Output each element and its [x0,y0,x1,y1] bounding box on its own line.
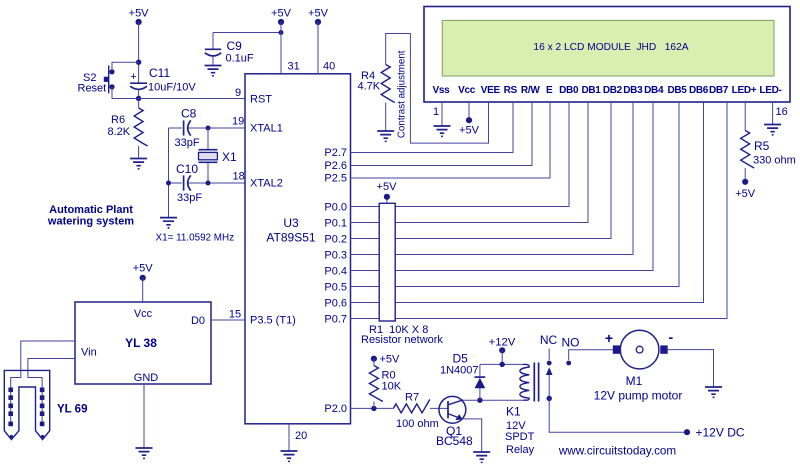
resistor R7 100 ohm [393,392,438,431]
+12V supply (relay) [489,337,516,354]
+5V supply (R0) [371,354,400,366]
wire LED- to ground [772,102,774,124]
+5V supply (pin40) [308,8,329,26]
svg-text:R7: R7 [405,392,419,404]
svg-text:P0.1: P0.1 [324,217,347,229]
wire XTAL1 net [169,127,246,129]
ground (C9) [205,66,222,76]
svg-text:Relay: Relay [506,444,535,456]
svg-text:Reset: Reset [78,83,107,95]
node +12V DC [684,429,690,435]
resistor network R1 10K x 8 [379,197,395,321]
svg-text:P3.5 (T1): P3.5 (T1) [250,315,296,327]
svg-text:DB5: DB5 [667,85,687,96]
wire NO contact to motor [569,350,613,360]
wire R/W to P2.6 [351,102,533,166]
svg-text:D5: D5 [453,352,469,366]
wire collector to coil [463,399,523,401]
svg-text:NC: NC [540,333,558,347]
ground (motor) [705,387,722,397]
+5V supply (LCD Vcc) [459,117,480,136]
svg-text:XTAL2: XTAL2 [250,178,283,190]
wire S2 top branch [112,62,139,69]
svg-text:Automatic Plant: Automatic Plant [49,204,133,216]
ground (Vss) [434,126,451,136]
ground (Q1 emitter) [473,452,490,462]
wire LCD Vcc to +5V [468,102,470,120]
svg-text:Vin: Vin [81,347,97,359]
svg-text:10K: 10K [382,381,402,393]
svg-text:+: + [605,330,613,346]
svg-text:Vcc: Vcc [134,308,153,320]
wire RS to P2.7 [351,102,514,153]
wire YL38 D0 to P3.5 [211,319,245,321]
svg-text:P0.7: P0.7 [324,313,347,325]
svg-text:LED+: LED+ [732,85,757,96]
svg-text:+5V: +5V [129,8,150,20]
svg-text:BC548: BC548 [436,434,473,448]
svg-text:D0: D0 [191,315,205,327]
wire +5V rail down to C11 [138,22,140,83]
svg-text:+5V: +5V [133,263,154,275]
+5V supply (pin31) [271,8,292,26]
svg-text:1N4007: 1N4007 [440,365,479,377]
svg-text:AT89S51: AT89S51 [266,231,315,245]
svg-text:12V pump motor: 12V pump motor [594,389,683,403]
svg-text:P0.3: P0.3 [324,249,347,261]
wire +12V to coil top [480,350,523,364]
sensor probe YL 69 [4,370,49,439]
svg-text:RST: RST [250,94,272,106]
svg-text:R6: R6 [111,114,125,126]
svg-text:DB1: DB1 [581,85,601,96]
svg-text:www.circuitstoday.com: www.circuitstoday.com [558,445,676,458]
svg-text:+5V: +5V [735,188,756,200]
svg-text:+12V DC: +12V DC [696,426,745,440]
ground (R4) [377,131,394,141]
svg-text:LED-: LED- [759,85,781,96]
svg-text:YL 38: YL 38 [125,336,157,350]
resistor R5 330 ohm [741,131,796,182]
wire motor negative to ground [668,350,714,387]
svg-text:+5V: +5V [271,8,292,20]
+5V supply (YL38 Vcc) [133,263,154,281]
svg-text:X1: X1 [222,150,237,164]
svg-text:Resistor network: Resistor network [361,334,443,346]
wire DB7 to P0.7 [351,102,728,319]
svg-text:0.1uF: 0.1uF [226,53,254,65]
svg-text:-: - [669,329,674,345]
node junction RST [136,96,141,101]
svg-text:M1: M1 [626,374,643,388]
ground (crystal caps) [160,218,177,228]
wire NC contact [548,349,550,360]
wire DB0 to P0.0 [351,102,570,207]
sensor module YL 38 [75,302,211,384]
node junction S2 top [136,60,141,65]
svg-text:DB6: DB6 [689,85,709,96]
svg-text:+5V: +5V [459,125,480,137]
svg-text:C8: C8 [181,107,197,121]
wire S2 bottom branch [112,87,139,99]
node junction diode/coil [477,398,482,403]
op IC U3 AT89S51 [245,74,351,424]
svg-text:20: 20 [295,430,307,442]
wire probe lead A [11,341,75,424]
svg-text:GND: GND [134,372,159,384]
wire emitter to ground [462,419,482,452]
svg-text:4.7K: 4.7K [358,81,381,93]
node junction armature/common [547,396,552,401]
diode D5 1N4007 [440,352,485,401]
node junction XTAL2/crystal [206,181,211,186]
wire DB1 to P0.1 [351,102,589,223]
svg-text:16 x 2 LCD MODULE JHD 162A: 16 x 2 LCD MODULE JHD 162A [533,42,688,53]
capacitor C10 33pF [176,162,202,204]
svg-text:C10: C10 [176,162,198,176]
wire YL38 GND [143,384,145,448]
title Automatic Plant watering system [47,204,134,228]
node junction +12V/top wire [500,362,505,367]
svg-text:18: 18 [233,171,245,183]
svg-text:C9: C9 [227,39,243,53]
svg-text:P2.5: P2.5 [324,173,347,185]
svg-text:K1: K1 [506,405,521,419]
node junction R0/P2.0 [371,406,376,411]
svg-text:+12V: +12V [489,337,516,349]
svg-text:E: E [546,85,553,96]
svg-text:31: 31 [288,61,300,73]
svg-text:U3: U3 [283,216,299,230]
svg-text:DB0: DB0 [559,85,579,96]
ground (LED-) [764,125,781,135]
svg-text:X1= 11.0592 MHz: X1= 11.0592 MHz [156,233,235,244]
svg-text:P2.0: P2.0 [324,403,347,415]
svg-text:P0.6: P0.6 [324,297,347,309]
svg-text:100 ohm: 100 ohm [396,418,439,430]
svg-text:P2.7: P2.7 [324,147,347,159]
capacitor C8 33pF [175,107,200,150]
wire C9 to +5V pin31 rail [213,32,281,34]
relay armature arrow [546,367,553,398]
svg-text:NO: NO [562,336,580,350]
svg-text:+5V: +5V [308,8,329,20]
motor M1 12V pump [605,329,674,369]
svg-text:33pF: 33pF [177,192,202,204]
svg-text:P0.2: P0.2 [324,233,347,245]
transistor Q1 BC548 [436,396,473,447]
svg-text:+5V: +5V [380,354,401,366]
svg-text:40: 40 [323,61,335,73]
svg-text:P0.0: P0.0 [324,201,347,213]
+5V supply (R5) [735,179,756,200]
switch S2 [78,66,115,95]
svg-text:watering system: watering system [47,216,134,228]
svg-text:DB3: DB3 [623,85,643,96]
svg-text:+: + [130,71,136,83]
svg-text:8.2K: 8.2K [108,126,131,138]
svg-text:DB4: DB4 [644,85,664,96]
wire YL38 Vcc [142,278,144,302]
node junction caps leg [166,181,171,186]
svg-text:19: 19 [232,116,244,128]
svg-text:P0.5: P0.5 [324,281,347,293]
wire pin 40 [317,22,319,74]
node NC contact [547,361,552,366]
svg-text:YL 69: YL 69 [57,404,87,416]
crystal X1 [199,128,238,183]
wire E to P2.5 [351,102,551,178]
svg-text:XTAL1: XTAL1 [250,123,283,135]
svg-text:33pF: 33pF [175,137,200,149]
+5V supply (R1) [377,181,398,200]
svg-text:16: 16 [776,106,788,118]
svg-text:15: 15 [229,309,241,321]
+5V supply (reset rail) [129,8,150,26]
svg-text:Contrast adjustment: Contrast adjustment [396,50,407,138]
svg-text:P0.4: P0.4 [324,265,347,277]
svg-text:C11: C11 [149,66,170,80]
svg-text:VEE: VEE [481,85,501,96]
svg-text:RS: RS [504,85,518,96]
svg-text:P2.6: P2.6 [324,160,347,172]
svg-text:SPDT: SPDT [505,431,535,443]
wire P2.0 net [351,407,449,409]
node junction XTAL1/crystal [206,126,211,131]
svg-text:1: 1 [433,106,439,118]
svg-text:R/W: R/W [521,85,540,96]
wire probe lead B [28,359,75,425]
svg-text:9: 9 [235,87,241,99]
wire DB6 to P0.6 [351,102,704,303]
capacitor C9 0.1uF [205,33,254,66]
wire DB2 to P0.2 [351,102,612,239]
node NO contact [566,361,571,366]
svg-text:10uF/10V: 10uF/10V [148,82,196,94]
svg-text:+5V: +5V [377,181,398,193]
node junction C9 rail [279,30,284,35]
svg-text:DB7: DB7 [709,85,729,96]
capacitor C11 10uF/10V [130,66,196,94]
wire C11 to RST node [138,89,140,99]
wire XTAL2 net [169,182,246,184]
svg-text:Vcc: Vcc [458,85,476,96]
ground (R6) [130,159,147,169]
wire LED+ to R5 [744,102,746,131]
resistor R0 10K [369,359,401,409]
wire LCD Vss to ground [441,102,443,126]
resistor R4 4.7K [358,65,395,132]
svg-text:DB2: DB2 [603,85,623,96]
svg-text:Vss: Vss [433,85,451,96]
LCD module box JHD162A [424,7,790,103]
svg-text:R5: R5 [754,139,770,153]
wire DB5 to P0.5 [351,102,680,287]
ground (pin20) [281,451,298,461]
wire common to +12V DC [549,399,687,433]
svg-text:330 ohm: 330 ohm [753,155,796,167]
wire LCD VEE to contrast resistor [386,34,489,144]
wire DB4 to P0.4 [351,102,654,271]
wire RST net to U3 pin 9 [139,98,245,100]
resistor R6 8.2K [108,99,148,159]
wire DB3 to P0.3 [351,102,634,255]
wire pin 31 [280,22,282,74]
ground (YL38) [136,448,153,458]
wire crystal caps common leg [168,128,170,218]
relay coil K1 [520,363,539,402]
wire pin 20 to ground [288,424,290,451]
label K1 12V SPDT Relay [505,405,535,457]
